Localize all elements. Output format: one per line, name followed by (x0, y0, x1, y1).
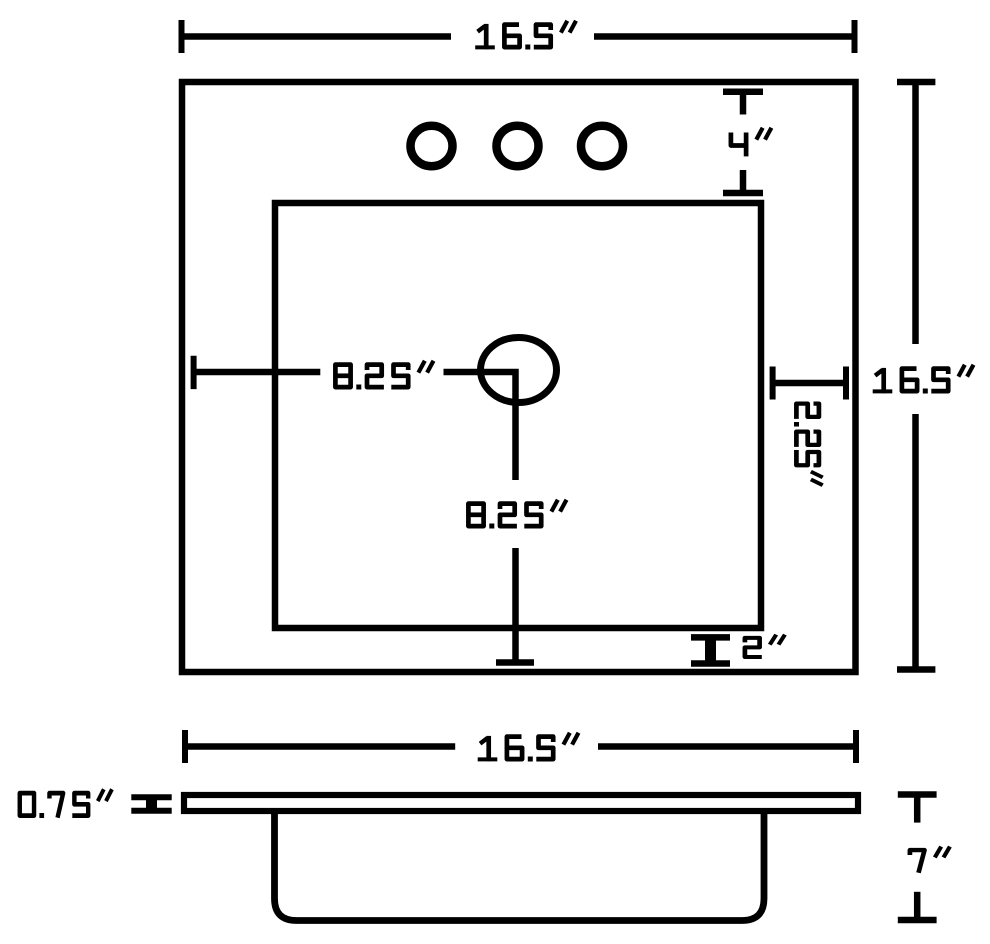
0.75 inch dimension stem (146, 797, 157, 810)
horizontal 8.25 inch label (335, 361, 433, 390)
0.75 inch label (20, 789, 112, 818)
faucet hole center (497, 126, 539, 166)
top dimension line 16.5 inch left segment (182, 33, 452, 40)
0.75 inch dimension bottom bar (131, 808, 171, 814)
4 inch dimension lower stem (740, 170, 747, 193)
bottom view dimension label 16.5 inch (478, 733, 579, 762)
drain circle (481, 338, 557, 403)
outer sink rim (top view) (182, 82, 856, 672)
7 inch dimension upper stem (914, 795, 921, 823)
inner basin rim (top view) (275, 203, 761, 628)
faucet hole left (411, 126, 453, 166)
right dimension 16.5 inch top bar (897, 79, 935, 86)
2 inch label (745, 635, 785, 657)
7 inch dimension bottom bar (898, 917, 937, 924)
7 inch dimension lower stem (914, 892, 921, 920)
vertical 8.25 inch label (468, 500, 566, 529)
2.25 inch dimension line (773, 380, 846, 387)
vertical 8.25 inch dimension bottom bar (496, 659, 534, 666)
7 inch label (910, 847, 950, 873)
countertop slab (side view) (184, 795, 858, 811)
vertical 8.25 inch dimension lower stem (512, 548, 519, 663)
2.25 inch dimension right tick (843, 367, 849, 400)
horizontal 8.25 inch dimension right segment joined to vertical stem (444, 372, 516, 480)
right dimension label 16.5 inch (873, 365, 974, 394)
0.75 inch dimension top bar (131, 794, 171, 800)
2 inch dimension top bar (691, 634, 730, 641)
right dimension 16.5 inch bottom bar (897, 666, 935, 673)
right dimension 16.5 inch upper stem (912, 82, 919, 344)
bottom view dimension right segment (598, 743, 856, 750)
horizontal 8.25 inch dimension left segment (194, 369, 321, 376)
2 inch dimension bottom bar (691, 660, 730, 667)
basin bowl (side view) (275, 811, 765, 921)
4 inch dimension bottom bar (723, 190, 763, 197)
2.25 inch label rotated (794, 404, 823, 486)
4 inch label (731, 128, 772, 157)
4 inch dimension top bar (723, 88, 763, 95)
right dimension 16.5 inch lower stem (912, 414, 919, 670)
2 inch dimension stem (705, 637, 716, 663)
2.25 inch dimension left tick (770, 367, 776, 400)
top dimension label 16.5 inch (475, 21, 576, 50)
7 inch dimension top bar (898, 791, 937, 798)
bottom view dimension left segment (185, 743, 455, 750)
bottom view dimension 16.5 inch right tick (853, 730, 859, 763)
faucet hole right (581, 126, 623, 166)
horizontal 8.25 inch dimension left tick (191, 356, 197, 389)
bottom view dimension 16.5 inch left tick (182, 730, 188, 763)
top dimension line 16.5 inch left tick (179, 20, 185, 53)
top dimension line 16.5 inch right tick (852, 20, 858, 53)
top dimension line 16.5 inch right segment (594, 33, 855, 40)
4 inch dimension upper stem (740, 92, 747, 115)
